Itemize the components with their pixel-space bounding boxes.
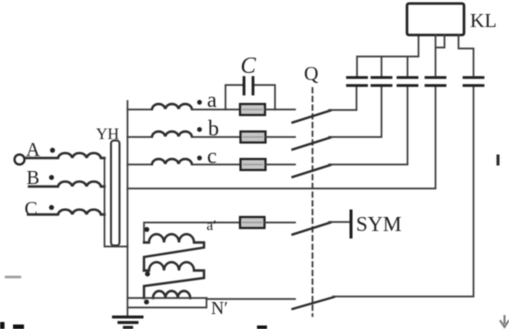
wire neutral to capacitor C4 (midline) (128, 87, 436, 189)
terminal circle on phase A (15, 155, 25, 165)
fuse FU-c (241, 159, 266, 170)
wire top bus to KL (357, 35, 419, 76)
winding C (primary) (28, 210, 105, 215)
wire row a from bus (128, 109, 153, 111)
capacitor C5 (464, 78, 483, 86)
wire row c from bus (128, 164, 153, 166)
svg-text:a: a (207, 87, 217, 112)
polarity dot a-prime (144, 227, 149, 232)
switch Q pole e blade (N-prime row) (293, 297, 335, 309)
svg-text:KL: KL (470, 10, 497, 32)
wire row b to fuse (192, 136, 241, 138)
winding da1 (open delta) (144, 234, 204, 270)
svg-text:Q: Q (304, 63, 319, 85)
svg-text:C: C (241, 53, 257, 78)
svg-text:SYM: SYM (356, 212, 402, 236)
wire row b from bus (128, 136, 153, 138)
transformer core YH (111, 141, 120, 246)
capacitor C parallel branch wire (226, 85, 276, 110)
ground symbol (114, 317, 143, 328)
fuse FU-a (240, 104, 265, 115)
winding da3 (open delta) (153, 291, 190, 298)
svg-text:a′: a′ (207, 218, 217, 234)
wire row c to switch (266, 164, 296, 166)
svg-text:C: C (25, 199, 38, 220)
capacitor C plates (244, 78, 253, 95)
polarity dot C (49, 205, 54, 210)
disconnect switch Q dashed gang line (312, 88, 314, 316)
capacitor C4 (426, 78, 445, 86)
switch Q pole a blade (293, 111, 331, 123)
wire SYM row fuse (239, 222, 241, 224)
wire pole e output to capacitor C5 (333, 87, 474, 297)
wire SYM row to switch (265, 222, 296, 224)
polarity dot a (197, 100, 202, 105)
wire row b to switch (266, 136, 296, 138)
wire da3 baseline (128, 297, 207, 299)
wire row a to fuse (192, 109, 240, 111)
artifact bottom-center mark (257, 326, 267, 329)
wire N-prime to bottom switch (207, 298, 296, 300)
switch Q pole c blade (293, 165, 331, 177)
wire a-prime line to open-delta (144, 223, 240, 243)
artifact right edge tick (497, 156, 500, 164)
wire row a to switch (265, 109, 295, 111)
wire pole b output to capacitor C2 (329, 87, 382, 137)
switch Q pole d blade (SYM row) (293, 223, 331, 235)
svg-text:YH: YH (96, 126, 120, 143)
SYM contact bar (350, 211, 353, 237)
artifact scroll arrow bottom-right (501, 316, 509, 327)
svg-text:N′: N′ (211, 298, 228, 318)
artifact bottom-left mark 1 (0, 322, 5, 329)
switch Q pole b blade (293, 138, 331, 150)
artifact bottom-left mark 2 (13, 325, 24, 329)
wire primary neutral bus (105, 158, 128, 247)
wire pole c output to capacitor C3 (329, 87, 408, 165)
polarity dot da3 (144, 300, 149, 305)
winding c (secondary) (152, 159, 192, 164)
capacitor C2 (372, 78, 391, 86)
winding da2 (open delta) (144, 262, 204, 298)
winding a (secondary) (152, 104, 192, 109)
wire pole a output to capacitor C1 (329, 87, 357, 110)
wire ground link under da3 (128, 298, 207, 308)
wire KL right pin to capacitor C5 (459, 35, 474, 76)
winding A (primary) (25, 153, 105, 158)
polarity dot b (197, 127, 202, 132)
relay KL box (407, 4, 464, 36)
fuse FU-b (241, 132, 266, 143)
wire secondary neutral bus (127, 101, 129, 316)
polarity dot c (197, 156, 202, 161)
wire KL middle pin to capacitor C4 (436, 35, 445, 76)
polarity dot A (50, 148, 55, 153)
winding b (secondary) (152, 131, 192, 136)
polarity dot da2 (145, 272, 150, 277)
capacitor C3 (398, 78, 417, 86)
fuse FU-d (240, 217, 265, 228)
capacitor C1 (348, 78, 367, 86)
wire pole d output to SYM (329, 221, 349, 223)
artifact gray dash left edge (6, 276, 20, 278)
wire row c to fuse (192, 164, 241, 166)
winding B (primary) (29, 182, 105, 187)
polarity dot B (49, 175, 54, 180)
